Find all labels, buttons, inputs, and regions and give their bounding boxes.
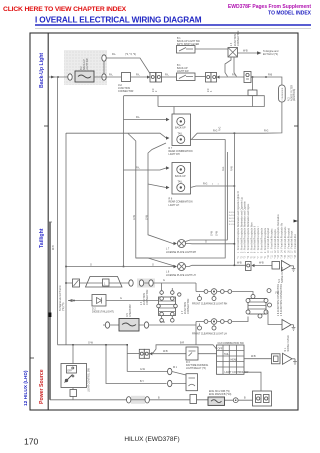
node at 252.5,77 [252, 76, 254, 78]
svg-text:R-L: R-L [109, 74, 114, 77]
vertical drop to DRL connector pair [126, 345, 128, 372]
svg-text:11 : Front Ash Receptac: 11 : Front Ash Receptac [271, 228, 274, 253]
power source bus y344.8 left segment [58, 344, 128, 346]
svg-text:(IGNITION): (IGNITION) [293, 89, 296, 101]
wire connector pair 2 to connector B [220, 76, 245, 78]
junction connector J6/J5 block [246, 295, 268, 319]
switch lever [65, 375, 73, 383]
svg-text:M 1: M 1 [173, 366, 178, 369]
node on back-up wire x266 [265, 76, 267, 78]
svg-text:CONNECTOR: CONNECTOR [146, 289, 149, 305]
svg-text:R-G: R-G [222, 166, 225, 171]
right border tick marks [294, 125, 298, 127]
vertical drop from node to small connector [252, 77, 254, 90]
noise filter N1 triangle [283, 353, 293, 364]
svg-text:W-B: W-B [52, 245, 55, 250]
svg-text:W-B: W-B [259, 261, 264, 264]
title underline [35, 24, 311, 26]
diagram outer frame [30, 33, 298, 410]
svg-text:B-Y: B-Y [140, 380, 144, 383]
arrow marker on right border [294, 220, 299, 223]
wire y119.5 into RH back-up pin [124, 119, 167, 121]
wire J4 to engine ECU arrow [238, 52, 258, 54]
svg-text:EWD378F Pages From Supplement: EWD378F Pages From Supplement [228, 4, 311, 10]
svg-text:7 : Front Ash Receptacle I: 7 : Front Ash Receptacle I [257, 226, 260, 253]
wire combination sw right to noise filter N1 [244, 358, 273, 360]
node on y133 [234, 132, 236, 134]
svg-text:BACK-UP: BACK-UP [175, 127, 186, 130]
rheostat (light control) box [119, 319, 139, 332]
wire D2 to J7 [106, 300, 159, 302]
wire feed from left border to switch B2 [48, 76, 68, 78]
inner contact box [67, 366, 77, 374]
svg-text:TAIL: TAIL [178, 181, 184, 184]
shaded twin-oval connector [137, 279, 155, 288]
svg-text:OFF: OFF [218, 348, 223, 351]
svg-text:B-R: B-R [180, 341, 184, 344]
svg-text:5 : Front Ash Receptacle Illum: 5 : Front Ash Receptacle Illum [250, 222, 253, 253]
svg-text:R-L: R-L [112, 53, 117, 56]
svg-text:Power Source: Power Source [39, 369, 45, 404]
svg-text:G-W: G-W [215, 230, 218, 236]
chevron pin RH back-up [166, 118, 170, 121]
center long vertical wires [136, 139, 225, 258]
noise filter triangle (license) [282, 261, 291, 272]
horizontal run y133 from bus [66, 133, 166, 345]
svg-text:HILUX (EWD378F): HILUX (EWD378F) [124, 436, 179, 443]
wire upper sw to J4 [195, 48, 229, 49]
inner sidebar divider line [47, 33, 49, 410]
connector oval on row [129, 280, 133, 286]
license plate light RH bulb [178, 240, 186, 248]
svg-text:LIGHT LH: LIGHT LH [169, 204, 180, 207]
noise filter N2 capsule [279, 85, 286, 102]
taillight relay box [186, 374, 198, 391]
connector pair BF1 [147, 73, 162, 83]
svg-text:G-W: G-W [210, 230, 213, 236]
junction connector J7 block [157, 291, 181, 322]
wire into DRL connector pair [127, 353, 139, 355]
wire from B2 to J12 [94, 76, 121, 78]
svg-text:R-L: R-L [165, 74, 170, 77]
svg-text:Back-Up Light: Back-Up Light [39, 53, 45, 88]
clearance RH grounds [198, 297, 202, 301]
spare connector circles right of block [267, 289, 271, 293]
svg-text:W-B: W-B [243, 50, 248, 53]
svg-text:LIGHT RH: LIGHT RH [169, 153, 180, 156]
battery junction box bottom right [253, 391, 272, 406]
ground at clearance noise filter [292, 325, 296, 331]
svg-text:ECT ECU (*4): ECT ECU (*4) [263, 53, 278, 56]
vertical link between B2 connector pins [103, 61, 105, 74]
horizontal y170 to LH back-up [124, 168, 167, 170]
illumination feed row y283 [66, 282, 72, 284]
ground at license noise filter [292, 266, 296, 272]
legend list of tiny rotated note lines [237, 191, 297, 259]
svg-text:OFF: OFF [67, 370, 72, 373]
taillight diode D2 box [92, 295, 106, 307]
back-up light sw upper box [177, 46, 196, 54]
svg-text:ENG MAIN R/B (*10): ENG MAIN R/B (*10) [209, 393, 232, 396]
LH tail left feed diagonal [148, 184, 166, 188]
svg-text:15 : Front Ash Receptacle: 15 : Front Ash Receptacle [284, 226, 287, 253]
svg-text:R-G: R-G [203, 183, 208, 186]
big loop horizontal y96 [124, 96, 265, 107]
svg-text:12 : Front Ash Recepta: 12 : Front Ash Recepta [274, 229, 277, 253]
drop from combination sw to battery box [244, 372, 261, 391]
wire LH tail out right y186 [191, 186, 235, 188]
svg-text:(*2) (*5): (*2) (*5) [62, 302, 65, 311]
small connector box on loop line [248, 90, 257, 96]
connector oval upper (pin 1) [102, 55, 106, 61]
wire J12 to connector pair [131, 76, 151, 78]
chevron into LH tail pin [166, 186, 170, 189]
front clearance light RH row [196, 289, 253, 296]
svg-text:HEAD: HEAD [231, 359, 238, 362]
back-up light switch B2 [75, 71, 94, 82]
svg-text:W-B: W-B [237, 261, 242, 264]
light control switch box [61, 364, 87, 388]
svg-text:CONNECTOR: CONNECTOR [187, 298, 190, 314]
svg-text:BACK-UP: BACK-UP [175, 175, 186, 178]
svg-text:G: G [205, 240, 207, 243]
svg-text:R-L: R-L [136, 167, 141, 170]
arrow on feed wire [51, 76, 55, 79]
connector pair 2 [206, 73, 220, 83]
combination sw grid [217, 345, 245, 374]
svg-text:6 : Front Ash Receptacle Il: 6 : Front Ash Receptacle Il [254, 226, 257, 253]
taillight control relay (shaded) [208, 397, 225, 405]
svg-text:LIGHT CONTROL SW: LIGHT CONTROL SW [225, 371, 250, 374]
junction connector J12 [122, 73, 131, 82]
svg-text:G-W: G-W [88, 341, 94, 344]
svg-text:CONNECTOR: CONNECTOR [237, 30, 240, 46]
wire lower sw to connector pair 2 [195, 76, 206, 78]
svg-text:LIGHT RELAY (*3): LIGHT RELAY (*3) [186, 367, 206, 370]
svg-text:R-W: R-W [231, 165, 234, 171]
svg-text:FRONT CLEARANCE LIGHT RH: FRONT CLEARANCE LIGHT RH [192, 303, 228, 306]
svg-text:G-W: G-W [133, 214, 136, 220]
svg-text:R-G: R-G [219, 126, 222, 131]
connector B (tall) [244, 72, 251, 83]
svg-text:CONDENSER: CONDENSER [282, 87, 284, 100]
svg-text:FRONT CLEARANCE LIGHT LH: FRONT CLEARANCE LIGHT LH [192, 333, 227, 336]
wire vertical pair partner x227.6 [227, 152, 229, 240]
wire to back-up light sw B1 [162, 76, 177, 78]
svg-text:G: G [152, 264, 154, 267]
light control switch drop [72, 345, 74, 364]
diode box on row y283 [73, 279, 80, 287]
svg-text:LIGHT SW: LIGHT SW [86, 58, 89, 70]
svg-text:J 5 JUNCTION CONNECTOR: J 5 JUNCTION CONNECTOR [280, 284, 283, 316]
RH back-up bulb [177, 117, 185, 125]
svg-text:I OVERALL ELECTRICAL WIRING D: I OVERALL ELECTRICAL WIRING DIAGRAM [35, 16, 202, 25]
svg-text:TO MODEL INDEX: TO MODEL INDEX [268, 11, 312, 17]
junction connector J4 [228, 48, 238, 58]
license RH feed second vertical [148, 143, 174, 244]
vertical from clearance feed [195, 283, 197, 345]
svg-text:12 HILUX (LHD): 12 HILUX (LHD) [23, 370, 29, 406]
rear combination light LH box [172, 163, 191, 195]
svg-text:LIGHT CONTROL SW: LIGHT CONTROL SW [88, 367, 91, 392]
bottom bus y399.8 [50, 399, 253, 401]
svg-text:R-L: R-L [232, 74, 237, 77]
license RH right pin to vertical [186, 243, 235, 245]
svg-text:CLICK HERE TO VIEW CHAPTER IND: CLICK HERE TO VIEW CHAPTER INDEX [3, 6, 127, 13]
svg-text:LICENSE PLATE LIGHT LH: LICENSE PLATE LIGHT LH [166, 274, 196, 277]
rear combination light RH box [172, 114, 191, 146]
svg-text:W-B: W-B [163, 350, 168, 353]
pin box inside trapezoid [103, 279, 110, 286]
clearance LH grounds [198, 326, 202, 330]
arrow to signal and ECT ECU [68, 299, 73, 302]
combination switch outer box [217, 345, 245, 374]
taillight switch feed row y325 [103, 324, 105, 326]
stub from J7 top to row283 [162, 283, 173, 291]
RH tail out right to loop [191, 133, 265, 139]
chevron into RH tail pin [166, 136, 170, 139]
node junction at x58 y77 [57, 76, 59, 78]
trapezoid connector housing [86, 277, 123, 288]
license LH right run y265.5 [186, 265, 246, 266]
svg-text:R-B: R-B [268, 74, 273, 77]
capsule drain vertical to tail run [264, 102, 282, 133]
svg-text:13 : Front Ash Receptacle Illu: 13 : Front Ash Receptacle Illumination [277, 214, 280, 253]
wire to interior box [255, 265, 273, 267]
wire R-L upper run [106, 58, 150, 74]
connector oval right of B2 (pin 2) [102, 74, 106, 80]
svg-text:NOISE FILTER: NOISE FILTER [287, 335, 290, 351]
RH tail pin2 run to down-corner vertical [191, 138, 226, 140]
fuse box on drop [70, 390, 77, 397]
license plate light LH chevron [174, 265, 178, 268]
diagonal from J4 down joining long vertical [225, 57, 237, 77]
svg-text:4 : Front Ash Receptacle Illum: 4 : Front Ash Receptacle Illumination an… [247, 203, 250, 253]
wire arrow to diode D2 [68, 300, 92, 302]
svg-text:TAIL: TAIL [224, 353, 230, 356]
wire pair to DRL relay [152, 353, 216, 355]
svg-text:G-W: G-W [145, 214, 148, 220]
svg-text:14 : Front Ash Receptacle Illu: 14 : Front Ash Receptacle Illu [281, 222, 284, 253]
connector oval left of B2 [68, 74, 72, 80]
svg-text:LICENSE PLATE LIGHT RH: LICENSE PLATE LIGHT RH [166, 251, 196, 254]
switch bottom drop to bottom bus [72, 388, 74, 400]
license RH feed vertical [128, 134, 174, 266]
vertical x123.5 [123, 96, 125, 267]
svg-text:C13 COMBINATION SW: C13 COMBINATION SW [218, 342, 245, 345]
svg-text:LIGHT SW: LIGHT SW [177, 70, 189, 73]
daytime running light relay connector pair [139, 349, 152, 358]
tab tick [30, 357, 34, 359]
main vertical bus from node 58,77 [57, 77, 59, 345]
wire block to noise filter triangle [266, 312, 282, 325]
svg-text:G: G [163, 279, 165, 282]
taillight relay feeds [106, 345, 167, 384]
svg-text:G: G [90, 264, 92, 267]
svg-text:G: G [120, 297, 122, 300]
shaded area around back-up light switch [64, 50, 107, 85]
connector oval left [105, 322, 109, 328]
back-up light sw lower box [177, 73, 196, 81]
svg-text:170: 170 [24, 437, 39, 447]
front clearance light LH row [196, 317, 248, 325]
svg-text:16 : Front Ash Receptacl: 16 : Front Ash Receptacl [287, 227, 290, 253]
svg-text:9 : Front Ash Receptacle: 9 : Front Ash Receptacle [264, 227, 267, 253]
bottom bus connector ovals with shade [131, 396, 145, 404]
svg-text:RHEOSTAT: RHEOSTAT [129, 304, 132, 317]
svg-text:CONNECTOR: CONNECTOR [118, 90, 134, 93]
connector box under tail relay [190, 395, 197, 404]
svg-text:G-W: G-W [140, 368, 146, 371]
svg-text:W-B: W-B [251, 355, 256, 358]
connector box before N1 [272, 354, 281, 364]
svg-text:Taillight: Taillight [39, 228, 45, 248]
ground at N1 [293, 359, 297, 365]
arrow to engine ECU [257, 51, 262, 54]
small box on y265.5 [272, 262, 280, 270]
noise filter triangle (clearance) [282, 320, 291, 331]
svg-text:3 : Front Ash Receptacle Illum: 3 : Front Ash Receptacle Illumination an… [244, 200, 247, 253]
svg-text:R-L: R-L [136, 116, 141, 119]
svg-text:1 : Front Ash Receptacle Illum: 1 : Front Ash Receptacle Illumination an… [237, 191, 240, 253]
branch from y96 down to RH box top [158, 96, 174, 114]
connector on y265.5 [246, 262, 252, 271]
branch up to bus right segment [152, 345, 216, 354]
taillight bus horizontal y267 [66, 266, 174, 268]
daytime running light relay box [186, 347, 198, 360]
svg-text:R-G: R-G [264, 130, 269, 133]
svg-text:17 : Front Ash Recept: 17 : Front Ash Recept [291, 230, 294, 253]
switch pins [72, 375, 74, 377]
svg-text:10 : Front Ash Receptacl: 10 : Front Ash Receptacl [267, 227, 270, 253]
connector oval right [144, 322, 148, 328]
svg-text:G-W: G-W [160, 321, 166, 324]
connector circle on bottom bus [233, 398, 238, 403]
svg-text:(*2, *3, *4): (*2, *3, *4) [125, 53, 136, 56]
connector ovals at tail relay [168, 368, 172, 374]
svg-text:2 : Front Ash Receptacle Illum: 2 : Front Ash Receptacle Illumination an… [240, 197, 243, 253]
svg-text:8 : Front Ash Receptacle: 8 : Front Ash Receptacle [260, 227, 263, 253]
license plate light RH chevron [174, 242, 178, 245]
heavy feed vertical from battery [49, 222, 51, 400]
svg-text:R-L: R-L [136, 74, 141, 77]
svg-text:R-G: R-G [213, 130, 218, 133]
svg-text:DIODE (TAILLIGHT): DIODE (TAILLIGHT) [92, 311, 114, 314]
svg-text:NOISE FILTER: NOISE FILTER [281, 267, 284, 283]
svg-text:18 : Front Ash Rec: 18 : Front Ash Rec [294, 233, 297, 253]
wire to noise filter N2 [251, 77, 282, 85]
license plate light LH bulb [178, 263, 186, 271]
LH back-up bulb [177, 166, 185, 174]
